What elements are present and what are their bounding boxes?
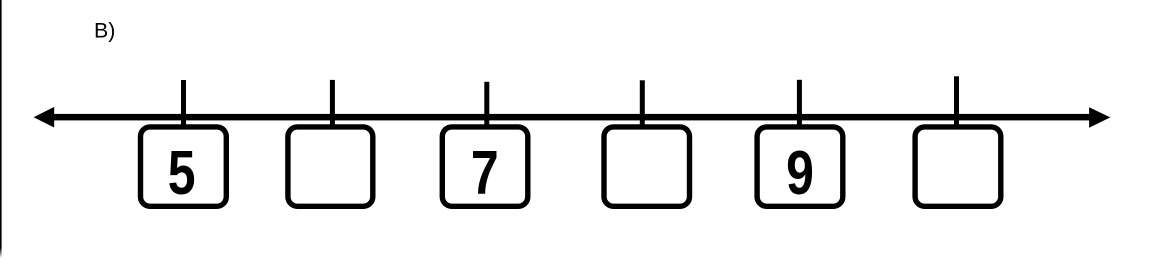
svg-text:B): B)	[94, 19, 115, 43]
svg-text:5: 5	[168, 138, 196, 208]
svg-text:9: 9	[786, 138, 814, 208]
svg-text:7: 7	[471, 138, 499, 208]
